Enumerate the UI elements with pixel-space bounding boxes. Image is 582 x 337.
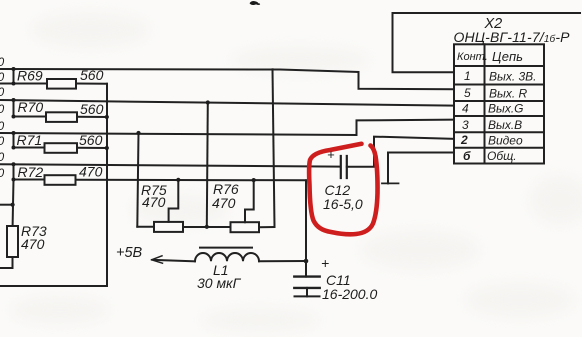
wire R69 resistor line [0,83,47,85]
svg-text:470: 470 [79,164,103,180]
table row line 5 [454,147,544,149]
table row line 1 [454,84,544,86]
svg-text:+5В: +5В [116,245,143,261]
wire [77,147,107,149]
wire pin5 jog [359,72,455,89]
wire C11 bottom lead [306,288,308,297]
node R71 resistor line [12,146,16,150]
svg-text:3: 3 [462,118,469,132]
node R70 label line [12,98,16,102]
svg-text:5: 5 [464,86,471,100]
node R72 resistor line [12,178,16,182]
svg-text:+: + [321,255,329,271]
ink blot [250,1,260,5]
wire [259,226,275,228]
svg-text:470: 470 [142,194,166,210]
wire L1 right lead [259,260,306,262]
svg-text:0: 0 [0,166,5,180]
wire trimmer rail [137,226,154,228]
node bus R70 [105,115,109,119]
svg-text:30 мкГ: 30 мкГ [197,275,242,291]
table row line 3 [454,115,544,117]
capacitor C12 [341,156,347,178]
node R69 label line [12,67,16,71]
svg-text:470: 470 [21,236,45,252]
svg-text:560: 560 [80,101,104,117]
svg-text:Вых. R: Вых. R [489,87,528,101]
svg-text:0: 0 [0,134,5,148]
wire pin6 to ground [388,153,454,184]
svg-text:Общ.: Общ. [487,149,517,163]
svg-text:560: 560 [79,132,103,148]
left edge cut labels [0,55,5,180]
connector X2 table [454,44,544,163]
svg-text:4: 4 [462,102,469,116]
resistor R73 [7,226,18,257]
svg-text:R71: R71 [17,132,43,148]
svg-text:0: 0 [0,119,5,133]
table header line [454,65,544,67]
wire C11 top lead [305,180,307,276]
svg-text:Вых.В: Вых.В [488,118,522,132]
node R69 resistor line [12,82,16,86]
wire L1 left lead [154,260,195,261]
resistor R76 [231,222,260,232]
wire R73 stub [0,204,13,206]
node L1 C11 [304,259,309,264]
node R76 tap [252,178,256,182]
node R70 tap [206,100,210,104]
wire R71 signal line [0,133,357,135]
wire C12 right [347,137,454,167]
wire R76 tap [245,180,254,222]
svg-text:+: + [327,147,335,162]
node R71 label line [12,131,16,135]
svg-text:R72: R72 [18,164,44,180]
wire R72 signal line to C12 [0,164,340,166]
svg-text:560: 560 [80,67,104,83]
svg-text:16-200.0: 16-200.0 [322,286,377,302]
node R70 resistor line [12,115,16,119]
wire left joint R72 [13,164,15,179]
svg-text:470: 470 [212,195,236,211]
resistor R70 [46,112,77,122]
red marker circle around C12 [309,144,377,235]
wire R71 resistor line [14,147,45,149]
svg-text:0: 0 [0,70,5,84]
wire R70 resistor line [14,116,47,118]
resistor R75 [154,222,183,232]
wire left joint R70 [13,100,15,117]
ground C11 [295,295,320,297]
inductor L1 core [200,247,252,249]
ground pin6 [382,182,399,184]
svg-text:2: 2 [460,133,468,147]
resistor R69 [47,79,76,89]
svg-text:б: б [463,149,471,163]
node rail top left [136,131,140,135]
svg-text:R69: R69 [17,68,43,84]
node R75 tap [176,178,180,182]
wire [77,116,107,118]
svg-text:16-5,0: 16-5,0 [323,196,363,212]
svg-text:0: 0 [0,55,5,69]
wire R69 line to rail right [273,69,275,227]
wire left joint R69 [13,69,15,84]
wire R70 signal line to pin 4 [0,100,454,106]
svg-text:Конт.: Конт. [457,51,488,63]
table column divider [484,44,486,163]
svg-text:Вых. 3В.: Вых. 3В. [489,70,537,84]
wire [76,83,107,85]
svg-text:Вых.G: Вых.G [488,102,524,116]
node R73 stub [11,203,15,207]
node bus R71 [105,146,109,150]
wire left joint R71 [13,133,15,148]
wire R70 line to rail mid [207,103,208,227]
wire R75 tap [169,180,179,222]
table row line 2 [454,100,544,102]
wire [183,226,231,228]
node rail mid [205,225,209,229]
inductor L1 [195,253,259,261]
svg-text:0: 0 [0,150,5,164]
svg-text:Видео: Видео [488,134,523,148]
svg-text:R70: R70 [18,99,44,115]
resistor R72 [45,175,76,185]
wire video bus vertical [0,84,107,286]
table row line 4 [454,131,544,133]
wire R73 bottom [0,257,13,268]
wire R73 top [12,180,15,227]
node R72 label line [12,162,16,166]
wire R72 resistor +5V line [14,179,45,181]
svg-text:Цепь: Цепь [492,49,523,64]
resistor R71 [45,143,78,153]
svg-text:1: 1 [464,69,471,83]
wire pin1 from top [393,13,581,72]
+5V arrow [152,256,163,263]
wire R71 line to rail left [137,133,138,227]
svg-text:0: 0 [0,102,5,116]
capacitor C11 [294,277,319,288]
wire R69 signal line [0,69,359,72]
wire [76,179,306,182]
svg-text:0: 0 [0,85,5,99]
wire pin3 jog [357,120,455,135]
